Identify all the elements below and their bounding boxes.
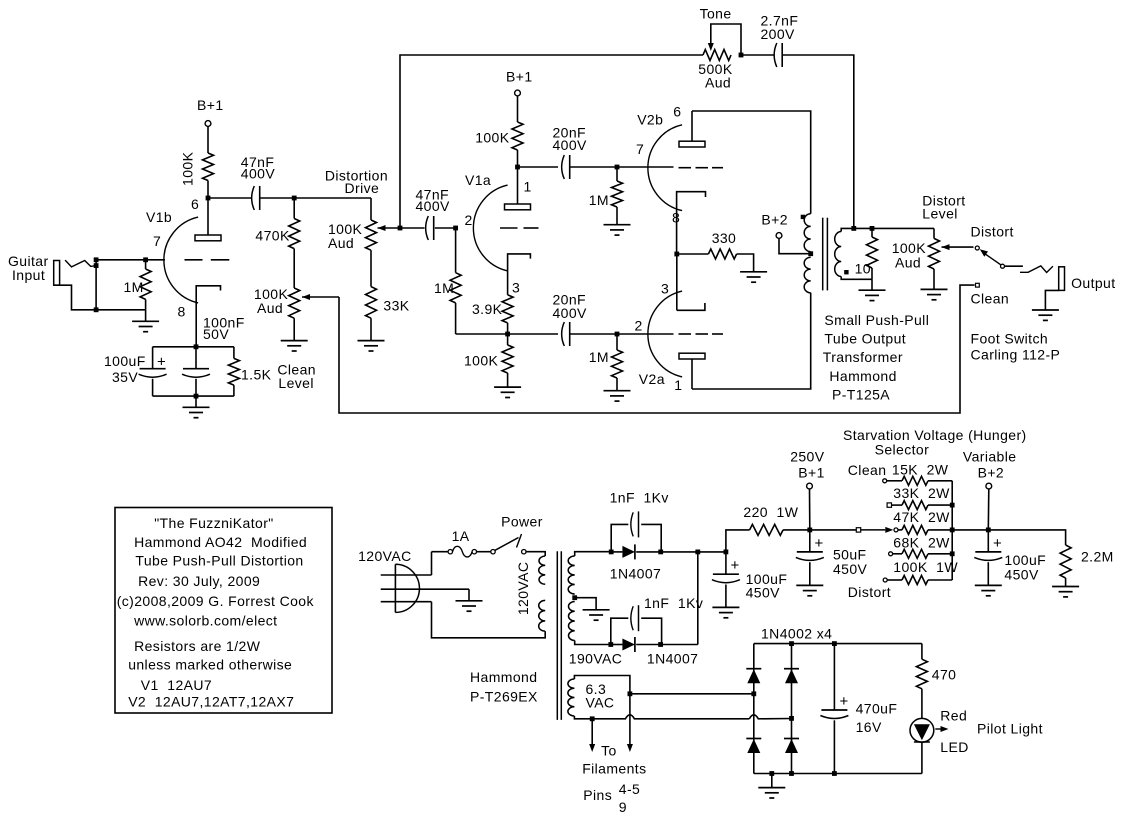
switch contact 100K [883, 578, 887, 582]
resistor 470K [289, 219, 300, 249]
wire 470 to LED [921, 689, 923, 719]
svg-text:2: 2 [635, 317, 643, 333]
switch marker square [856, 528, 860, 532]
label 100K Aud distort [892, 240, 927, 271]
wire feedback riser [400, 55, 703, 228]
label + 100uF35V [157, 354, 166, 371]
wiper arrow selector [861, 527, 894, 533]
label Distort position [848, 584, 891, 600]
ground second filter [975, 585, 1002, 595]
svg-text:Variable: Variable [963, 449, 1017, 465]
label Selector [875, 442, 930, 458]
tube V2a grid dashes [679, 333, 724, 335]
node V1b grid / R 1M junction [143, 257, 148, 262]
wire 100K right [928, 579, 952, 581]
svg-text:V2 12AU7,12AT7,12AX7: V2 12AU7,12AT7,12AX7 [128, 694, 294, 710]
node feedback junction [398, 226, 403, 231]
svg-text:100K 1W: 100K 1W [893, 559, 958, 575]
svg-text:+: + [157, 354, 166, 371]
wire dd pot top lead [370, 198, 372, 220]
svg-text:100uF: 100uF [104, 353, 146, 369]
wire 2.7nF to secondary [782, 55, 854, 228]
potentiometer 100K Aud Distortion Drive [366, 220, 377, 250]
wire 6.3 top lead [574, 676, 630, 694]
wire dd pot to 33K [370, 250, 372, 286]
resistor 33K [366, 287, 377, 319]
capacitor 100uF 450V (second) [974, 530, 1002, 561]
wire bias box top [153, 346, 234, 348]
potentiometer 500K Aud Tone [703, 50, 731, 61]
svg-text:Starvation Voltage (Hunger): Starvation Voltage (Hunger) [843, 427, 1027, 443]
wire V2a plate to transformer [692, 293, 811, 389]
switch SW1 power [491, 534, 526, 554]
wire 68K left [893, 553, 902, 555]
wire 10R to ground [871, 279, 873, 290]
tube V1b grid dashes [185, 259, 230, 261]
label pin 7 V1b [153, 233, 161, 249]
diode D5 1N4002 [784, 669, 799, 684]
svg-text:V1 12AU7: V1 12AU7 [141, 677, 212, 693]
svg-text:2: 2 [465, 212, 473, 228]
ground HV center tap [583, 610, 610, 620]
wire 470K top lead [293, 198, 295, 219]
svg-text:Rev: 30 July, 2009: Rev: 30 July, 2009 [138, 573, 260, 589]
label 100K rotated [179, 151, 195, 186]
wire first filter to ground [725, 585, 727, 608]
wire 6.3 bottom lead [574, 716, 592, 719]
node HV center tap [572, 595, 577, 600]
svg-text:Output: Output [1071, 275, 1115, 291]
label 470K [255, 228, 290, 244]
wire filament lead A [591, 719, 593, 744]
svg-text:Drive: Drive [345, 180, 380, 196]
label 470 [932, 667, 957, 683]
ground 33K [358, 341, 385, 351]
label 47K 2W [893, 509, 950, 525]
label pin 7 V2b [636, 141, 644, 157]
resistor 47K 2W [902, 525, 928, 534]
capacitor 2.7nF 200V [774, 43, 782, 67]
svg-text:15K 2W: 15K 2W [892, 462, 949, 478]
svg-text:1nF 1Kv: 1nF 1Kv [610, 490, 669, 506]
wire 33K left [892, 504, 903, 506]
svg-text:Clean: Clean [848, 462, 887, 478]
wiper arrow clean level [302, 294, 339, 300]
label + first filter [731, 557, 740, 574]
node V1a grid junction [453, 226, 458, 231]
svg-text:1A: 1A [452, 528, 470, 544]
wire node to D2 [611, 644, 623, 646]
svg-text:35V: 35V [112, 369, 138, 385]
svg-text:1: 1 [674, 377, 682, 393]
label 100K v1a [475, 130, 510, 146]
tube V1a envelope arc [473, 185, 507, 271]
wire clean pot to ground [293, 318, 295, 340]
diode D4 1N4002 [746, 739, 761, 754]
node filament A junction [590, 716, 595, 721]
label Pins 4-5 9 [583, 781, 640, 815]
svg-text:Foot Switch: Foot Switch [971, 331, 1049, 347]
capacitor 20nF 400V (lower) [562, 322, 570, 346]
wire lower rail right [570, 333, 674, 335]
wire bias box right top [233, 347, 235, 359]
LED D7 pilot [910, 718, 949, 742]
node lower 1M junction [615, 332, 620, 337]
capacitor 1nF 1Kv (upper) [631, 511, 639, 537]
tube V2b envelope arc [648, 125, 682, 211]
wire B+2 to 2.2M [988, 530, 1065, 545]
label 100nF 50V [203, 315, 245, 343]
resistor 100K 1W [902, 576, 928, 585]
capacitor 47nF 400V (first) [252, 186, 260, 210]
title box text [117, 515, 315, 710]
svg-text:200V: 200V [761, 26, 796, 42]
label Guitar Input [8, 253, 49, 283]
svg-text:B+1: B+1 [798, 465, 825, 481]
wire filament lead B [629, 694, 631, 744]
transformer T1 core [557, 551, 561, 720]
transformer T2 phase dot primary [801, 215, 805, 219]
wire 100K cathode-load top [507, 334, 509, 345]
transformer T1 6.3V winding [568, 679, 575, 716]
label pin 2 V1a [465, 212, 473, 228]
svg-text:Input: Input [12, 267, 45, 283]
wire switch to primary [526, 552, 545, 556]
capacitor 20nF 400V (upper) [562, 155, 570, 179]
node secondary top / feedback [851, 226, 856, 231]
wire B+1 terminal lead [809, 489, 811, 530]
capacitor 50uF 450V [796, 530, 824, 561]
wire 15K left [887, 480, 902, 482]
label + 50uF [815, 535, 824, 552]
label V1a [465, 172, 491, 188]
wire 47K right [928, 529, 952, 531]
node snubber1 left [609, 550, 614, 555]
wire jack tip to V1b grid [96, 259, 165, 261]
label pin 3 V1a [512, 280, 520, 296]
wire node to 330 [677, 253, 709, 255]
svg-text:1M: 1M [589, 192, 609, 208]
svg-text:Hammond: Hammond [470, 669, 537, 685]
label 220 1W [743, 504, 798, 520]
label 20nF 400V upper [553, 125, 588, 154]
wire fuse to switch [477, 551, 491, 553]
switch contact 33K (square) [887, 503, 891, 507]
ground clean pot [281, 341, 308, 351]
svg-text:LED: LED [940, 739, 968, 755]
label pin 6 V1b [191, 196, 199, 212]
label 15K 2W [892, 462, 949, 478]
svg-text:220 1W: 220 1W [743, 504, 798, 520]
wire snubber1 loop [611, 524, 661, 552]
label pin 1 V1a [524, 179, 532, 195]
node rectifier join top [695, 550, 700, 555]
node cathode join [674, 252, 679, 257]
svg-text:100K: 100K [475, 130, 510, 146]
svg-text:1nF 1Kv: 1nF 1Kv [644, 595, 703, 611]
svg-text:Level: Level [278, 375, 313, 391]
svg-text:450V: 450V [833, 561, 868, 577]
node 3.9K bottom [505, 332, 510, 337]
resistor 68K 2W [902, 549, 928, 558]
svg-text:VAC: VAC [586, 694, 615, 710]
capacitor 100nF 50V [182, 369, 210, 378]
node 470uF bottom [832, 771, 837, 776]
svg-text:Level: Level [922, 206, 957, 222]
label 47nF 400V second [416, 187, 451, 215]
arrow filament B [627, 744, 633, 752]
wire B+1 to selector [810, 529, 857, 531]
wire V1b cathode to bias network [195, 303, 197, 347]
wire 33K right [928, 504, 952, 506]
label Distortion Drive [325, 168, 388, 197]
svg-text:100K: 100K [464, 353, 499, 369]
label 33K [383, 298, 409, 314]
tube V1a plate [505, 167, 531, 210]
switch contact 68K [889, 552, 893, 556]
wire selector bus [951, 481, 953, 580]
label transformer T2 [823, 312, 929, 403]
wire LED to bottom rail [921, 742, 923, 773]
svg-text:V1a: V1a [465, 172, 491, 188]
wire bias box left top [152, 347, 154, 369]
svg-text:"The FuzzniKator": "The FuzzniKator" [154, 515, 273, 531]
svg-text:Hammond AO42 Modified: Hammond AO42 Modified [134, 534, 307, 550]
resistor 100K (V1a cathode load) [502, 345, 513, 373]
wire HV top to rectifier [575, 552, 611, 556]
node cathode bias top [194, 344, 199, 349]
label 470uF 16V [856, 701, 898, 736]
label 1M v2a grid [589, 349, 609, 365]
label V2a [639, 371, 665, 387]
resistor 1M (input) [140, 269, 151, 299]
svg-text:8: 8 [178, 304, 186, 320]
label Pilot Light [977, 721, 1043, 737]
connector J2 output tip contact [1020, 266, 1053, 273]
AC plug prong neutral [381, 601, 432, 603]
svg-text:Power: Power [501, 513, 543, 529]
svg-text:Aud: Aud [257, 300, 283, 316]
svg-text:3: 3 [661, 280, 669, 296]
label pin 3 V2a [661, 280, 669, 296]
wire secondary bottom [841, 277, 872, 280]
svg-text:Aud: Aud [705, 75, 731, 91]
svg-text:B+2: B+2 [761, 211, 788, 227]
switch arm [980, 249, 1001, 264]
ground dc minus [758, 788, 785, 798]
ground output jack [1032, 310, 1059, 320]
node snubber1 right [658, 550, 663, 555]
diode D2 1N4007 [622, 637, 635, 652]
node T2 center tap [808, 251, 813, 256]
wire distort pot top [933, 228, 935, 238]
svg-text:Resistors are 1/2W: Resistors are 1/2W [134, 638, 261, 654]
wire 1M to lower rail [455, 303, 457, 334]
label pin 1 V2a [674, 377, 682, 393]
wire rectifier join vertical [697, 552, 699, 645]
svg-text:1: 1 [524, 179, 532, 195]
capacitor 100uF 35V [139, 369, 167, 378]
label 20nF 400V lower [553, 292, 588, 322]
transformer T2 secondary winding [835, 232, 842, 277]
node bridge right top [789, 641, 794, 646]
resistor 1.5K [228, 358, 239, 385]
diode D6 1N4002 [784, 739, 799, 754]
label 2.7nF 200V [761, 13, 799, 43]
ground 50uF [796, 585, 823, 595]
svg-text:16V: 16V [856, 719, 882, 735]
node upper 1M junction [615, 165, 620, 170]
label 1A [452, 528, 470, 544]
transformer T2 primary lower winding [804, 257, 811, 293]
wire B+1 to 100K plate resistor [207, 126, 209, 153]
label 1M (input) [124, 279, 144, 295]
wire 470K to clean pot [293, 249, 295, 288]
svg-text:unless marked otherwise: unless marked otherwise [128, 657, 292, 673]
svg-text:470K: 470K [255, 228, 290, 244]
svg-text:7: 7 [636, 141, 644, 157]
label Red LED [940, 708, 968, 756]
wire 3.9K to lower rail [507, 323, 509, 334]
svg-text:V2b: V2b [637, 112, 663, 128]
wiper arrow distortion drive [378, 225, 401, 231]
switch pole [1001, 264, 1005, 268]
wire 330 to ground [737, 254, 754, 272]
switch contact 15K [883, 479, 887, 483]
wire bridge right column [791, 644, 793, 774]
wire 100nF top lead [195, 347, 197, 369]
wire bias box right bottom [233, 385, 235, 396]
wire rectifier top rail [636, 551, 726, 553]
wire 1M v2a to ground [616, 378, 618, 391]
wire pole to output jack [1005, 265, 1023, 267]
svg-text:33K 2W: 33K 2W [893, 485, 950, 501]
node snubber2 left [608, 642, 613, 647]
svg-text:120VAC: 120VAC [358, 548, 412, 564]
wire clean wiper to footswitch run [339, 285, 975, 413]
label Starvation Voltage (Hunger) [843, 427, 1027, 443]
wire cathode join to V2a [676, 254, 678, 310]
resistor 470 [916, 659, 927, 689]
wire B+2 terminal lead [987, 489, 990, 530]
wire 100K to V1a plate node [517, 150, 519, 167]
label Clean contact [971, 291, 1010, 307]
label pin 6 V2b [673, 104, 681, 120]
connector J2 output jack body [1059, 267, 1065, 291]
svg-text:120VAC: 120VAC [515, 562, 531, 616]
tube V1a cathode [508, 254, 531, 271]
node bridge right mid [789, 716, 794, 721]
wire top rail left [518, 166, 559, 168]
svg-text:Filaments: Filaments [582, 760, 646, 776]
label pin 2 V2a [635, 317, 643, 333]
ground first filter [712, 607, 739, 617]
wire 47K left [898, 529, 902, 531]
resistor 10 (secondary load) [867, 228, 878, 279]
wire 6.3 top rail to bridge [630, 693, 754, 695]
svg-text:+: + [840, 693, 849, 710]
node 470uF top [832, 641, 837, 646]
label 1M v2b grid [589, 192, 609, 208]
wire center tap to ground [575, 598, 596, 610]
tube V2a cathode [677, 303, 705, 310]
svg-text:+: + [731, 557, 740, 574]
svg-text:6: 6 [191, 196, 199, 212]
wire 1M top lead [145, 260, 147, 269]
wire 100K to plate node [207, 181, 209, 199]
label 100uF 450V second [1004, 552, 1046, 583]
node selector bus 68K [950, 551, 955, 556]
label Distort Level [922, 193, 965, 222]
wire B+1 to 100K V1a [517, 96, 519, 122]
resistor 3.9K [502, 295, 513, 323]
tube V2b plate [679, 111, 705, 147]
wire 1M bottom lead [145, 299, 147, 309]
capacitor 100uF 450V (first filter) [712, 552, 740, 583]
wire plug hot up [431, 552, 433, 575]
label 1nF 1Kv lower [644, 595, 703, 611]
potentiometer 100K Aud Distort Level [929, 238, 940, 269]
node selector bus 33K [950, 503, 955, 508]
terminal B+2 (supply) [986, 483, 992, 489]
wire rectifier bottom rail [636, 644, 698, 646]
resistor 1M (V2a grid) [612, 334, 623, 378]
svg-text:Aud: Aud [328, 235, 354, 251]
transformer T1 primary lower [539, 600, 546, 631]
svg-text:1M: 1M [434, 280, 454, 296]
wire bridge top rail [754, 643, 922, 645]
label 3.9K [472, 301, 503, 317]
wire 68K right [928, 553, 952, 555]
node V1b plate node [206, 196, 211, 201]
wire node to D1 [611, 551, 623, 553]
label Tone [700, 6, 732, 22]
svg-text:+: + [815, 535, 824, 552]
label 120VAC [358, 548, 412, 564]
svg-text:Small Push-Pull: Small Push-Pull [824, 312, 929, 328]
node V1a plate node [515, 165, 520, 170]
wire V2b plate to transformer [692, 111, 811, 214]
AC plug prong hot [381, 574, 432, 576]
wire hot to fuse [432, 551, 449, 553]
wire 33K to ground [370, 318, 372, 340]
tube V1b envelope arc [164, 217, 198, 303]
transformer T1 HV winding lower [568, 602, 574, 641]
node tone right terminal [739, 53, 744, 58]
svg-text:6: 6 [673, 104, 681, 120]
label 100K Aud clean [254, 286, 289, 316]
svg-text:4-5: 4-5 [619, 781, 640, 797]
switch contact Clean [976, 283, 980, 287]
svg-text:10: 10 [855, 260, 871, 276]
node 6.3 top junction [628, 691, 633, 696]
label 2.2M [1081, 549, 1114, 565]
ground 1M v2b [604, 225, 631, 235]
svg-text:330: 330 [712, 230, 737, 246]
wire top rail right [570, 166, 674, 168]
hop bottom rail over left column [749, 715, 791, 719]
wire secondary top rail [841, 228, 934, 231]
svg-text:(c)2008,2009 G. Forrest Cook: (c)2008,2009 G. Forrest Cook [117, 593, 315, 609]
svg-text:Distort: Distort [848, 584, 891, 600]
svg-text:To: To [601, 743, 617, 759]
label 190VAC [569, 651, 623, 667]
tube V2a plate [679, 353, 705, 389]
wire plate node to 47nF [208, 197, 252, 199]
svg-text:Carling 112-P: Carling 112-P [971, 347, 1061, 363]
svg-text:B+1: B+1 [197, 97, 224, 113]
label To Filaments [582, 743, 646, 777]
